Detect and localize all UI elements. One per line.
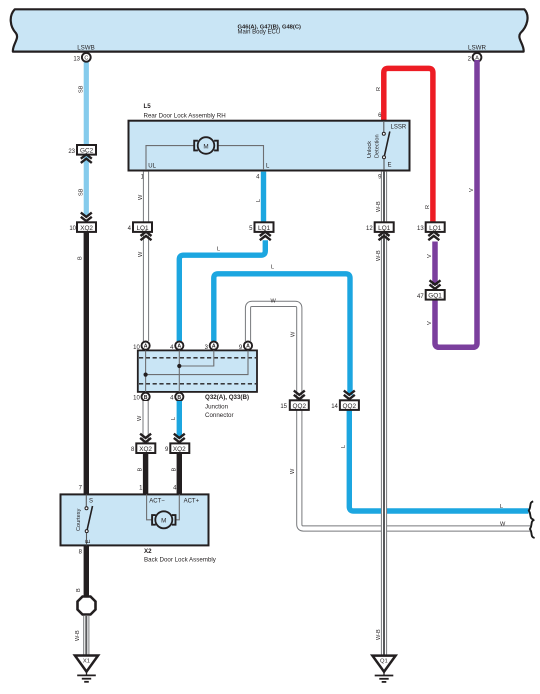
wire W from 10B to 8 XQ2 bbox=[143, 401, 149, 444]
continuation squiggle L wire right edge bbox=[529, 501, 534, 519]
junction pin 4 B bbox=[175, 393, 183, 401]
connector LQ1 pin 13 bbox=[426, 222, 445, 232]
svg-text:GQ1: GQ1 bbox=[428, 293, 442, 300]
svg-text:B: B bbox=[172, 468, 178, 472]
svg-text:LQ1: LQ1 bbox=[429, 225, 442, 232]
svg-text:23: 23 bbox=[68, 149, 75, 155]
svg-text:A: A bbox=[177, 344, 181, 350]
svg-text:Courtesy: Courtesy bbox=[76, 508, 82, 531]
connector QQ2 pin 15 bbox=[294, 391, 305, 400]
svg-text:S: S bbox=[89, 499, 93, 505]
svg-text:10: 10 bbox=[133, 345, 140, 351]
ground Q1 bbox=[372, 656, 395, 672]
junction pin 9 A bbox=[244, 342, 252, 350]
Back Door Lock Assembly X2 box bbox=[61, 494, 209, 545]
svg-text:A: A bbox=[246, 344, 250, 350]
pin 13 connector C on ECU bbox=[82, 53, 91, 62]
svg-text:W-B: W-B bbox=[75, 630, 81, 641]
svg-text:LSWR: LSWR bbox=[468, 45, 486, 52]
connector GC2 pin 23 bbox=[77, 145, 96, 155]
svg-text:W: W bbox=[137, 415, 143, 421]
svg-text:L: L bbox=[271, 264, 274, 270]
ground X1 bbox=[75, 656, 98, 672]
connector XQ2 pin 10 bbox=[81, 213, 92, 222]
svg-text:E: E bbox=[388, 163, 392, 169]
svg-text:W: W bbox=[500, 522, 506, 528]
svg-text:Unlock: Unlock bbox=[367, 141, 373, 158]
svg-text:B: B bbox=[138, 468, 144, 472]
svg-text:R: R bbox=[425, 205, 431, 209]
connector GQ1 pin 47 bbox=[430, 280, 441, 289]
wire L cyan from junction 3A loop right to 14 QQ2 bbox=[214, 274, 350, 395]
svg-text:Detection: Detection bbox=[375, 134, 381, 158]
svg-text:LQ1: LQ1 bbox=[258, 225, 271, 232]
svg-text:W-B: W-B bbox=[376, 629, 382, 640]
wire B from 8 XQ2 to X2 pin1 bbox=[143, 453, 148, 495]
junction connector Q32(A) Q33(B) bbox=[138, 350, 257, 392]
svg-text:W: W bbox=[138, 194, 144, 200]
svg-text:X2: X2 bbox=[144, 548, 152, 555]
wire L cyan from 14 QQ2 down then right to edge bbox=[349, 409, 528, 511]
connector QQ2 pin 14 bbox=[344, 391, 355, 400]
svg-text:L: L bbox=[217, 247, 220, 253]
svg-text:12: 12 bbox=[366, 226, 373, 232]
junction dot at 10A line bbox=[144, 373, 148, 377]
svg-text:SB: SB bbox=[79, 188, 85, 196]
svg-text:LSWB: LSWB bbox=[77, 45, 95, 52]
wire W-B from octagon to X1 ground bbox=[83, 616, 89, 655]
svg-text:Back Door Lock Assembly: Back Door Lock Assembly bbox=[144, 557, 217, 564]
svg-text:B: B bbox=[144, 395, 148, 401]
svg-text:B: B bbox=[76, 588, 82, 592]
wire L from 4B to 9 XQ2 bbox=[177, 401, 182, 438]
wire V purple: pin2 down, left, up to GQ1 bbox=[435, 60, 477, 347]
wire R red: pin6 up, right, down to 13 LQ1 bbox=[384, 68, 433, 226]
svg-text:LSSR: LSSR bbox=[391, 125, 407, 131]
svg-text:Q1: Q1 bbox=[380, 659, 388, 665]
switch Courtesy in X2 bbox=[85, 494, 87, 506]
svg-text:M: M bbox=[161, 518, 166, 525]
motor M in X2 bbox=[147, 494, 180, 519]
wire W-B from pin9 through 12 LQ1 down to Q1 ground bbox=[381, 172, 387, 656]
wire V between 13 LQ1 and 47 GQ1 bbox=[432, 242, 438, 286]
svg-text:M: M bbox=[203, 143, 208, 150]
splice octagon bbox=[78, 597, 96, 615]
motor M in L5 bbox=[146, 146, 264, 170]
junction pin 3 A bbox=[210, 342, 218, 350]
svg-text:ACT−: ACT− bbox=[149, 498, 165, 504]
connector XQ2 pin 8 bbox=[140, 434, 151, 443]
svg-text:QQ2: QQ2 bbox=[293, 403, 307, 410]
svg-text:L: L bbox=[500, 504, 503, 510]
svg-text:V: V bbox=[427, 254, 433, 258]
svg-text:W: W bbox=[138, 251, 144, 257]
svg-text:L: L bbox=[256, 199, 262, 202]
svg-text:W: W bbox=[290, 468, 296, 474]
svg-text:V: V bbox=[469, 188, 475, 192]
svg-text:15: 15 bbox=[280, 404, 287, 410]
junction pin 10 A bbox=[142, 342, 150, 350]
svg-text:XQ2: XQ2 bbox=[139, 446, 152, 453]
junction dot at 4A line bbox=[177, 364, 181, 368]
pin 2 connector A on ECU bbox=[473, 53, 482, 62]
wire SB lower segment bbox=[84, 155, 89, 217]
junction internal wires bbox=[146, 350, 248, 392]
Main Body ECU band bbox=[11, 9, 528, 51]
svg-text:W: W bbox=[291, 331, 297, 337]
svg-text:L5: L5 bbox=[144, 103, 152, 110]
svg-text:Rear Door Lock Assembly RH: Rear Door Lock Assembly RH bbox=[144, 112, 226, 119]
svg-text:W: W bbox=[271, 298, 277, 304]
svg-text:13: 13 bbox=[417, 226, 424, 232]
svg-text:W-B: W-B bbox=[376, 201, 382, 212]
svg-text:E: E bbox=[86, 539, 92, 543]
connector LQ1 pin 12 bbox=[375, 222, 394, 232]
svg-text:13: 13 bbox=[73, 57, 80, 63]
wire W from junction 9A loop right to 15 QQ2 bbox=[248, 304, 299, 401]
svg-text:B: B bbox=[177, 395, 181, 401]
connector LQ1 pin 4 bbox=[133, 222, 152, 232]
svg-text:A: A bbox=[144, 344, 148, 350]
wire B from 9 XQ2 to X2 pin4 bbox=[177, 453, 182, 495]
connector XQ2 pin 9 bbox=[174, 434, 185, 443]
svg-text:Junction: Junction bbox=[205, 404, 229, 411]
svg-text:Main Body ECU: Main Body ECU bbox=[238, 30, 281, 36]
svg-text:Q32(A), Q33(B): Q32(A), Q33(B) bbox=[205, 394, 249, 401]
wire B left vertical bbox=[84, 231, 89, 495]
svg-text:C: C bbox=[84, 56, 88, 62]
svg-text:W-B: W-B bbox=[376, 250, 382, 261]
svg-text:XQ2: XQ2 bbox=[80, 225, 93, 232]
svg-text:L: L bbox=[341, 445, 347, 448]
svg-text:UL: UL bbox=[148, 164, 156, 170]
svg-text:QQ2: QQ2 bbox=[343, 403, 357, 410]
svg-text:R: R bbox=[376, 87, 382, 91]
svg-text:X1: X1 bbox=[83, 659, 90, 665]
svg-text:10: 10 bbox=[133, 395, 140, 401]
svg-text:SB: SB bbox=[79, 85, 85, 93]
svg-text:A: A bbox=[212, 344, 216, 350]
svg-text:B: B bbox=[78, 256, 84, 260]
svg-text:L: L bbox=[171, 417, 177, 420]
junction pin 4 A bbox=[175, 342, 183, 350]
svg-text:Connector: Connector bbox=[205, 412, 234, 419]
svg-text:ACT+: ACT+ bbox=[184, 498, 200, 504]
wire SB upper segment bbox=[84, 60, 89, 146]
svg-text:10: 10 bbox=[69, 226, 76, 232]
svg-text:47: 47 bbox=[417, 294, 424, 300]
svg-text:V: V bbox=[427, 321, 433, 325]
wire W from pin1 to 4 LQ1 to junction 10A bbox=[143, 172, 149, 341]
svg-text:LQ1: LQ1 bbox=[136, 225, 149, 232]
wire L cyan from pin4 to 5 LQ1 then loop to junction 4A bbox=[261, 172, 266, 226]
continuation squiggle W wire right edge bbox=[530, 520, 535, 538]
connector LQ1 pin 5 bbox=[255, 222, 274, 232]
svg-text:XQ2: XQ2 bbox=[173, 446, 186, 453]
svg-text:14: 14 bbox=[331, 404, 338, 410]
junction pin 10 B bbox=[142, 393, 150, 401]
wire W from 15 QQ2 down then right to edge bbox=[299, 409, 530, 529]
